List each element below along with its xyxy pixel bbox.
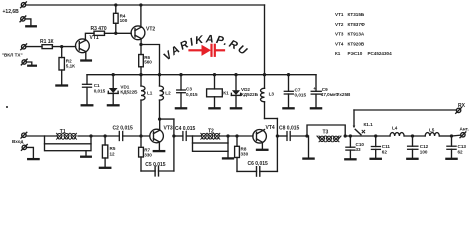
node C8 junction — [276, 134, 279, 137]
wire R3 to VT2 base — [105, 32, 132, 34]
resistor R2 — [59, 47, 64, 85]
wire RX line — [354, 109, 456, 111]
watermark varicap diode — [190, 45, 225, 56]
wire L5 to antenna — [439, 135, 451, 137]
transistor VT2 — [131, 26, 145, 40]
wire C2 to VT3 base — [123, 135, 150, 137]
svg-text:33: 33 — [356, 147, 362, 152]
transformer T2 — [193, 133, 229, 157]
connector antenna — [460, 132, 466, 138]
wire T2 to VT4 base — [219, 135, 253, 137]
relay contact K1.1 — [353, 110, 365, 135]
node T3 right junction — [344, 134, 347, 137]
capacitor C5 — [141, 166, 174, 176]
svg-text:C2 0,015: C2 0,015 — [113, 126, 134, 132]
ground C3 — [176, 107, 186, 109]
connector gnd VKL TX — [21, 59, 27, 65]
svg-text:КТ315Б: КТ315Б — [348, 12, 365, 17]
inductor L3 — [261, 5, 265, 119]
svg-text:РС4524304: РС4524304 — [368, 51, 393, 56]
node R8 junction — [235, 134, 238, 137]
node L2 rail junction — [158, 73, 161, 76]
connector input bottom — [21, 145, 27, 151]
node C12 junction — [411, 134, 414, 137]
node VD1 junction — [112, 73, 115, 76]
wire L4 to L5 — [404, 135, 425, 137]
svg-text:VT4: VT4 — [266, 125, 275, 131]
svg-text:C13: C13 — [458, 144, 467, 149]
ground R5 — [100, 167, 110, 169]
svg-text:330: 330 — [241, 152, 249, 157]
svg-text:0,015: 0,015 — [186, 92, 198, 97]
svg-text:5,1К: 5,1К — [66, 64, 75, 69]
ground C7 — [283, 107, 293, 109]
svg-text:"ВКЛ ТХ": "ВКЛ ТХ" — [2, 53, 23, 58]
svg-text:0,015: 0,015 — [295, 92, 307, 97]
capacitor C10 — [346, 136, 355, 158]
diode VD1 — [108, 75, 118, 105]
connector RX — [456, 108, 462, 114]
capacitor C8 — [277, 132, 307, 141]
svg-text:+12,6В: +12,6В — [3, 9, 20, 15]
svg-text:560: 560 — [144, 59, 152, 64]
svg-text:L1: L1 — [147, 91, 153, 96]
ground VT1 emitter — [81, 59, 91, 61]
resistor R6 — [139, 45, 144, 75]
svg-text:+: + — [313, 86, 316, 91]
diode VD2 — [231, 75, 240, 108]
svg-text:T3: T3 — [323, 130, 329, 136]
transformer T1 — [45, 133, 92, 155]
inductor L2 — [160, 75, 164, 119]
svg-text:VT4: VT4 — [335, 41, 344, 46]
svg-text:КД522Б: КД522Б — [120, 89, 138, 94]
svg-text:62: 62 — [382, 149, 388, 154]
wire VT4 collector link — [263, 129, 265, 132]
connector input top — [21, 132, 27, 138]
svg-text:R1 1К: R1 1К — [40, 39, 55, 45]
capacitor C6 — [237, 167, 277, 176]
node VT2 rail junction — [139, 3, 142, 6]
wire collector top link — [160, 118, 174, 120]
node C4 junction — [172, 134, 175, 137]
svg-text:Ант.: Ант. — [460, 127, 469, 132]
node T1 right junction — [89, 134, 92, 137]
svg-text:VT2: VT2 — [335, 22, 344, 27]
wire feedback vertical VT4 — [276, 119, 278, 172]
capacitor C3 — [177, 75, 186, 108]
node C7 junction — [287, 73, 290, 76]
wire VT1 collector to R3 — [85, 33, 94, 40]
ground input — [28, 158, 38, 160]
inductor L4 — [390, 133, 404, 136]
wire VT1 emitter to ground — [85, 52, 87, 60]
svg-text:C1: C1 — [94, 83, 100, 88]
ground T1 — [81, 156, 91, 158]
svg-text:К1.1: К1.1 — [364, 122, 374, 127]
wire VT2 to top rail — [140, 5, 142, 27]
svg-text:0,015: 0,015 — [94, 88, 106, 93]
connector gnd top — [20, 16, 26, 22]
inductor L5 — [425, 133, 439, 136]
svg-text:47,0мкФх25В: 47,0мкФх25В — [321, 92, 351, 97]
ground C13 — [446, 158, 456, 160]
svg-text:L2: L2 — [165, 91, 171, 96]
svg-text:КД522Б: КД522Б — [241, 92, 259, 97]
node T2 out junction — [226, 134, 229, 137]
resistor R8 — [235, 136, 240, 171]
wire connector to ground — [25, 19, 31, 25]
svg-text:КТ913А: КТ913А — [348, 32, 365, 37]
transistor VT3 — [150, 129, 164, 143]
svg-text:12: 12 — [110, 151, 116, 156]
capacitor C2 — [119, 132, 122, 141]
svg-text:R2: R2 — [66, 58, 72, 63]
svg-text:330: 330 — [144, 152, 152, 157]
ground C1 — [82, 104, 93, 106]
wire mid rail — [87, 74, 316, 76]
wire R1 to VT1 base — [52, 46, 75, 48]
inductor L1 — [141, 75, 145, 136]
wire emitter row to right column — [141, 45, 160, 75]
transformer T3 — [307, 125, 345, 158]
svg-text:T2: T2 — [208, 128, 214, 134]
transistor VT1 — [76, 39, 90, 53]
wire connector to ground — [26, 62, 31, 65]
ground K1 — [209, 107, 219, 109]
wire connector to ground — [27, 147, 34, 158]
ground VT3 — [154, 150, 164, 152]
capacitor C12 — [408, 136, 418, 158]
svg-text:RX: RX — [458, 103, 466, 109]
wire top supply rail — [26, 4, 265, 6]
capacitor C4 — [174, 132, 201, 141]
capacitor C7 — [284, 75, 293, 108]
resistor R7 — [139, 136, 144, 171]
ground R2 — [56, 84, 67, 86]
svg-text:С11: С11 — [382, 144, 391, 149]
svg-text:VT3: VT3 — [164, 126, 173, 132]
node R5 junction — [103, 134, 106, 137]
capacitor C13 — [447, 136, 456, 158]
svg-text:КТ837Ф: КТ837Ф — [348, 22, 365, 27]
ground C11 — [371, 158, 381, 160]
wire VT4 emitter to ground — [261, 142, 263, 149]
node R4 bottom junction — [114, 32, 117, 35]
capacitor C1 — [83, 75, 92, 105]
svg-text:100: 100 — [420, 149, 428, 154]
capacitor C9 electrolytic — [311, 75, 321, 108]
node R4 top — [114, 3, 117, 6]
svg-text:T1: T1 — [60, 129, 66, 135]
wire T1 to C2 — [78, 135, 119, 137]
relay coil K1 — [207, 75, 223, 108]
svg-text:C6 0,015: C6 0,015 — [248, 161, 269, 167]
svg-text:C8 0,015: C8 0,015 — [279, 126, 300, 132]
ground C10 — [345, 158, 355, 160]
ground VD1 — [108, 104, 119, 106]
wire T3 to antenna rail — [345, 135, 390, 137]
speck — [6, 106, 8, 108]
connector VKL TX — [21, 44, 27, 50]
svg-text:VT1: VT1 — [335, 12, 344, 17]
node VD2 junction — [234, 73, 237, 76]
svg-text:VT1: VT1 — [90, 35, 99, 41]
wire input to T1 — [26, 135, 57, 137]
svg-text:L5: L5 — [429, 127, 435, 132]
svg-text:62: 62 — [458, 149, 464, 154]
node L3 rail junction — [263, 73, 266, 76]
node T3 left junction — [305, 134, 308, 137]
svg-text:К1: К1 — [335, 51, 341, 56]
ground T3 — [303, 157, 313, 159]
ground T2 — [223, 157, 233, 159]
node L2 collector junction — [158, 117, 161, 120]
resistor R5 — [102, 136, 107, 167]
node R2 junction — [60, 45, 63, 48]
wire VT2 emitter down — [140, 39, 142, 45]
wire VT3 collector up — [159, 119, 161, 130]
wire VT4 collector tap — [265, 118, 278, 120]
svg-text:100: 100 — [120, 18, 128, 23]
node C13 junction — [450, 134, 453, 137]
svg-text:РЭС10: РЭС10 — [348, 51, 363, 56]
svg-text:L4: L4 — [392, 125, 398, 130]
wire feedback vertical VT3 — [173, 119, 175, 171]
svg-text:Вход: Вход — [12, 139, 23, 144]
node C3 junction — [179, 73, 182, 76]
resistor R4 — [114, 5, 119, 33]
svg-text:C12: C12 — [420, 144, 429, 149]
wire to antenna connector — [452, 134, 461, 137]
ground — [26, 25, 36, 27]
svg-text:VT3: VT3 — [335, 32, 344, 37]
svg-text:VT2: VT2 — [146, 26, 155, 32]
node K1 junction — [213, 73, 216, 76]
svg-text:К1: К1 — [223, 90, 229, 95]
node R6 L1 junction — [139, 73, 142, 76]
ground VT4 — [257, 149, 267, 151]
svg-text:L3: L3 — [269, 92, 275, 97]
ground VD2 — [231, 107, 241, 109]
node VT2 emitter junction — [139, 43, 142, 46]
svg-text:R3 470: R3 470 — [91, 26, 107, 32]
node C11 junction — [374, 134, 377, 137]
ground C9 — [311, 107, 321, 109]
node C10 junction — [349, 134, 352, 137]
svg-text:C4 0,015: C4 0,015 — [175, 126, 196, 132]
wire to R1 — [26, 46, 42, 48]
resistor R1 — [42, 45, 52, 49]
resistor R3 — [94, 31, 105, 35]
svg-text:КТ920В: КТ920В — [348, 41, 365, 46]
transistor VT4 — [253, 130, 267, 144]
capacitor C11 — [371, 136, 380, 158]
ground — [28, 65, 36, 67]
connector +12,6V — [21, 2, 27, 8]
ground C12 — [407, 158, 417, 160]
wire VT3 emitter to ground — [158, 142, 160, 150]
node L1 R7 junction — [139, 134, 142, 137]
